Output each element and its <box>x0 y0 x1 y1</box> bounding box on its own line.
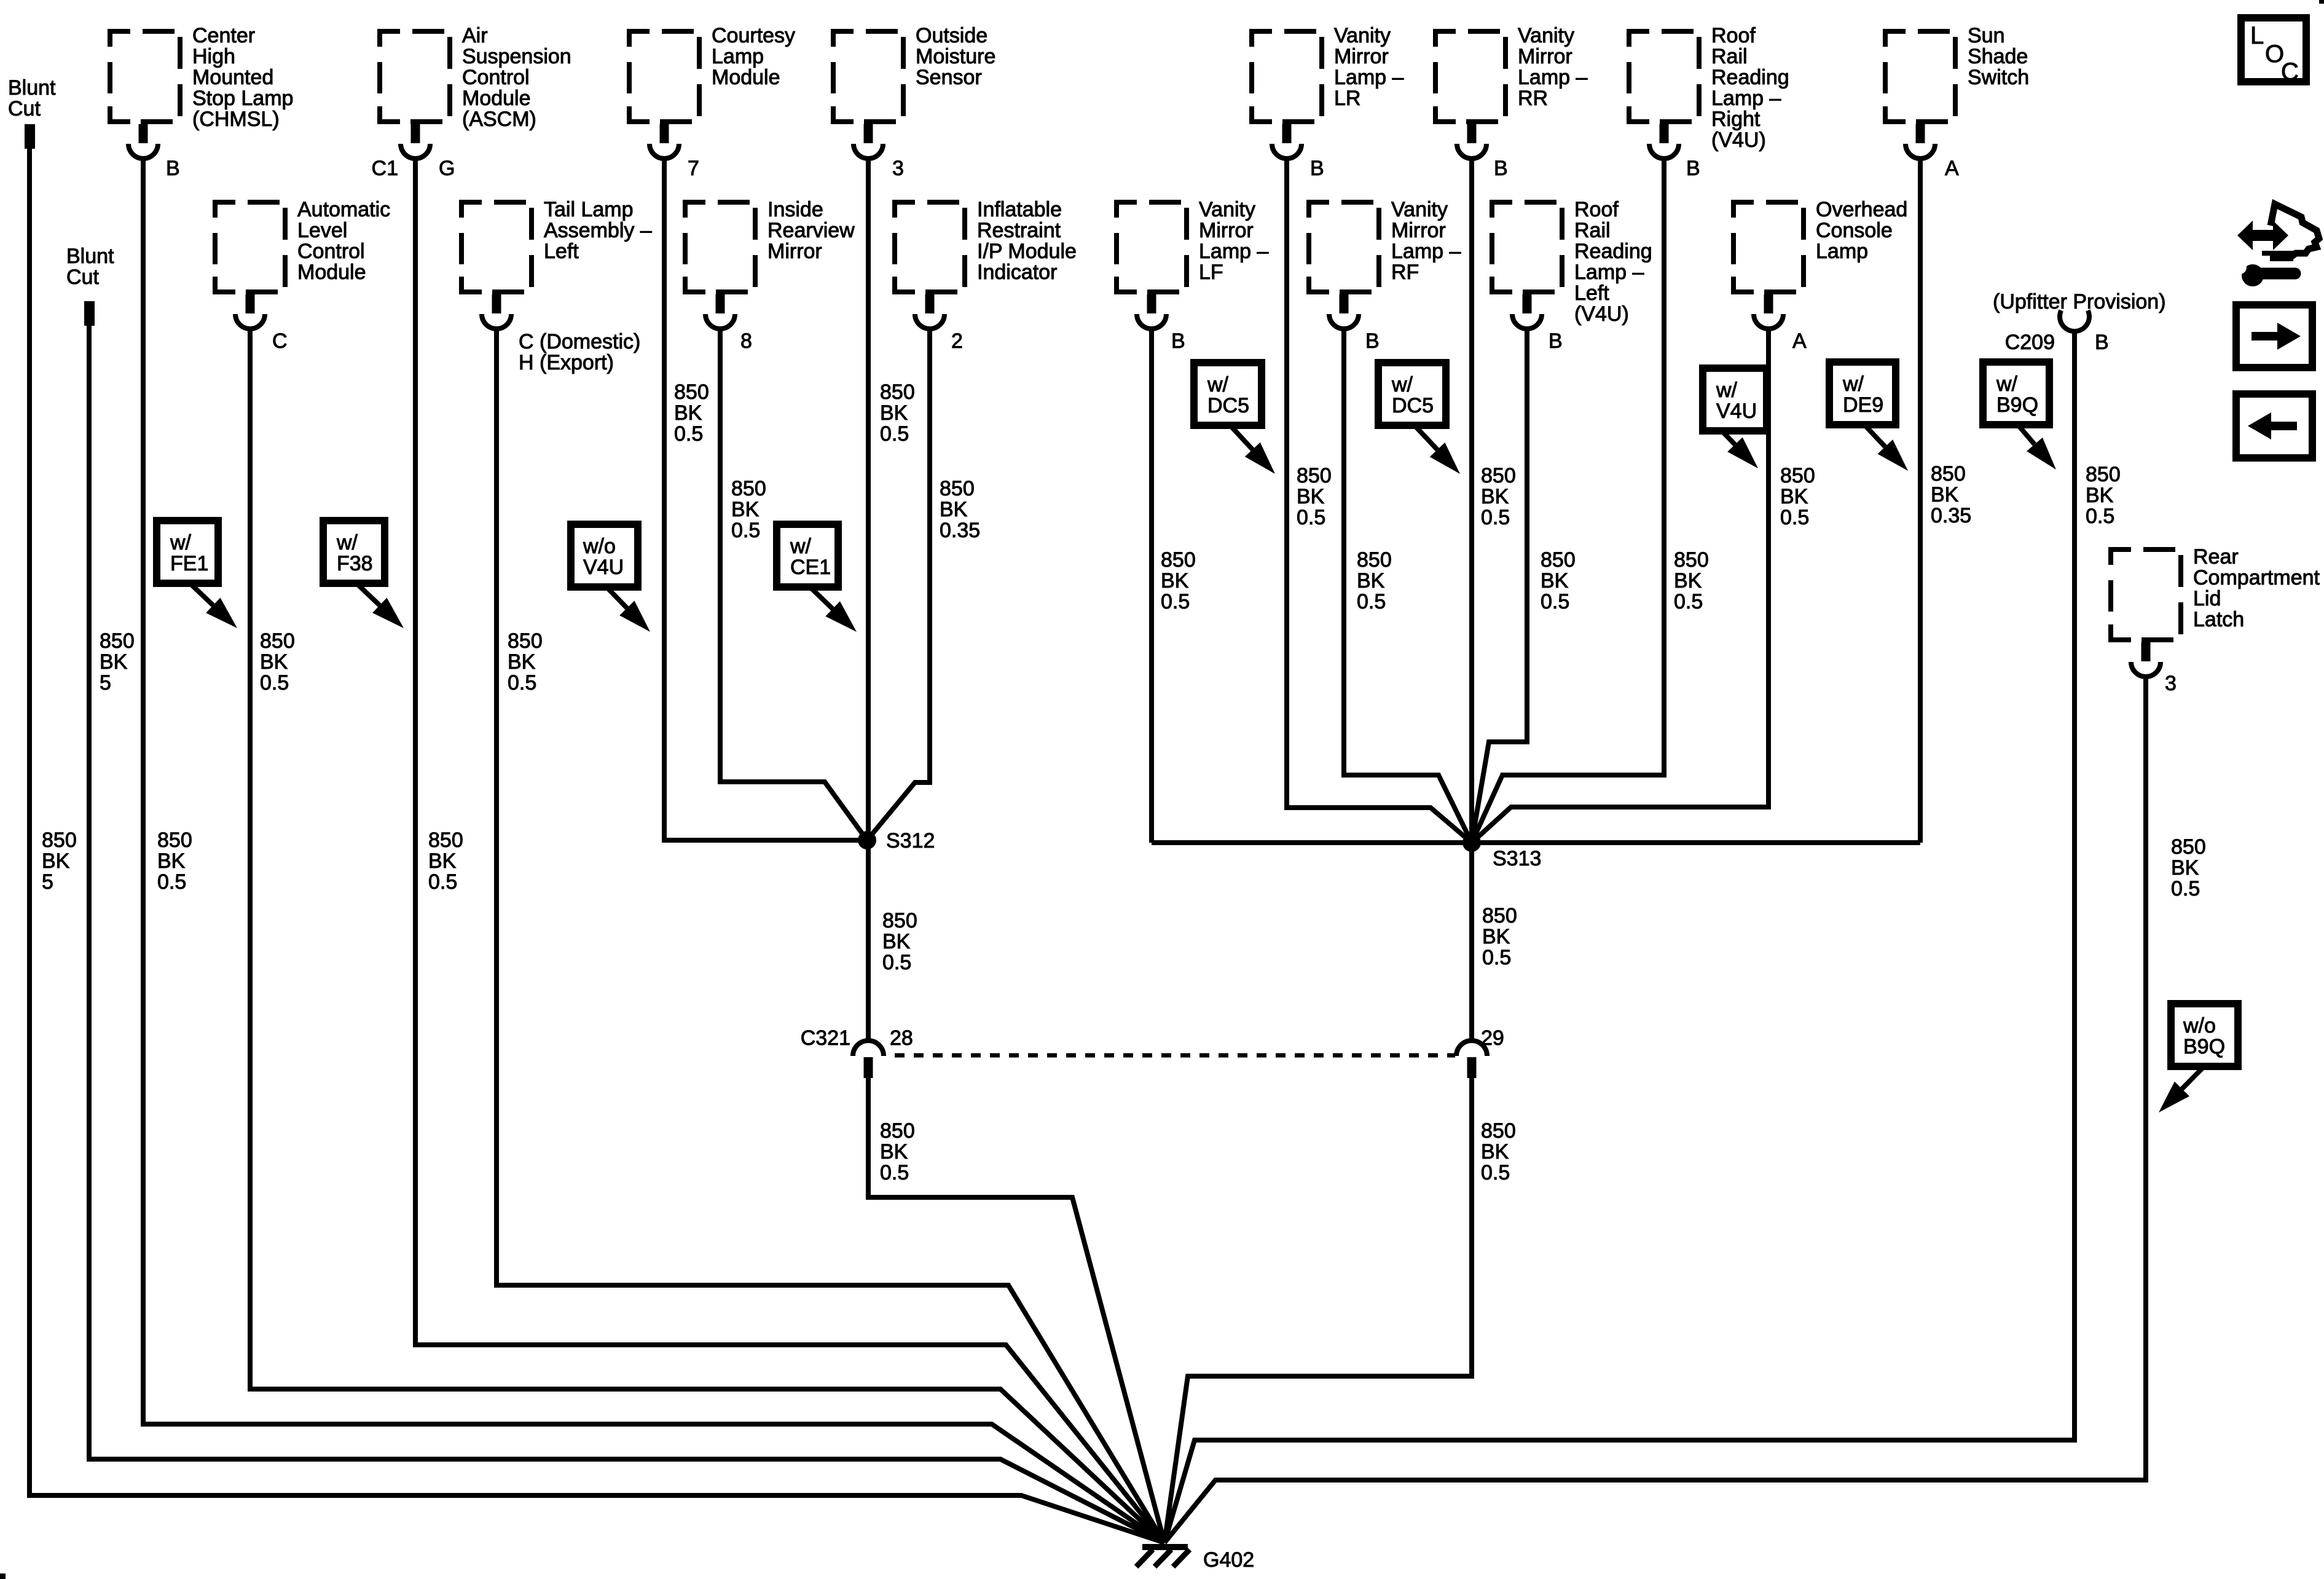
option arrow CE1 to Outside Moisture wire <box>809 586 833 609</box>
wire CHMSL B to G402 <box>143 158 1164 1543</box>
svg-text:2: 2 <box>951 329 963 353</box>
svg-text:850BK0.35: 850BK0.35 <box>940 477 980 542</box>
svg-text:B: B <box>1494 157 1508 180</box>
svg-text:850BK0.5: 850BK0.5 <box>2086 463 2121 528</box>
Courtesy Lamp Module connector <box>629 24 795 159</box>
wire Outside Moisture Sensor 3 through S312 to C321 pin 28 <box>866 158 871 1041</box>
service wrench icon <box>2233 204 2319 286</box>
svg-text:w/DE9: w/DE9 <box>1842 372 1883 417</box>
option box w/V4U <box>1703 368 1767 431</box>
svg-text:C: C <box>272 329 288 353</box>
ASCM connector <box>380 24 571 159</box>
Vanity Mirror Lamp RR connector <box>1435 24 1587 159</box>
wire C209 B to G402 <box>1164 330 2075 1543</box>
option arrow V4U to Overhead Console wire <box>1721 430 1735 444</box>
svg-text:RoofRailReadingLamp –Right(V4U: RoofRailReadingLamp –Right(V4U) <box>1711 24 1789 152</box>
svg-text:B: B <box>1549 329 1563 353</box>
Rear Compartment Lid Latch connector <box>2111 545 2320 677</box>
svg-text:B: B <box>166 157 180 180</box>
option arrow DE9 to Sun Shade wire <box>1863 423 1885 447</box>
Roof Rail Reading Lamp Left connector <box>1492 198 1652 329</box>
svg-text:850BK0.5: 850BK0.5 <box>1674 548 1709 613</box>
svg-text:850BK0.5: 850BK0.5 <box>508 629 543 695</box>
svg-text:Tail LampAssembly –Left: Tail LampAssembly –Left <box>544 198 652 263</box>
svg-text:AutomaticLevelControlModule: AutomaticLevelControlModule <box>297 198 390 284</box>
svg-text:850BK0.5: 850BK0.5 <box>880 1119 915 1184</box>
LOC legend box <box>2241 18 2306 85</box>
Vanity Mirror Lamp RF connector <box>1309 198 1461 329</box>
svg-text:w/oV4U: w/oV4U <box>583 535 624 579</box>
svg-text:G: G <box>439 157 455 180</box>
svg-text:C321: C321 <box>801 1026 850 1050</box>
Inflatable Restraint IP Module Indicator connector <box>895 198 1077 329</box>
svg-text:850BK0.5: 850BK0.5 <box>260 629 295 695</box>
option arrow F38 to ASCM wire <box>355 582 380 605</box>
svg-text:3: 3 <box>892 157 904 180</box>
wire Inside Rearview Mirror 8 to S312 <box>720 328 867 840</box>
svg-text:A: A <box>1945 157 1959 180</box>
option arrow w/o B9Q to Rear Latch wire <box>2182 1066 2205 1089</box>
Overhead Console Lamp connector <box>1733 198 1907 329</box>
wire ASCM G to G402 <box>415 158 1164 1543</box>
svg-text:B: B <box>2095 331 2109 354</box>
svg-text:VanityMirrorLamp –RF: VanityMirrorLamp –RF <box>1391 198 1461 284</box>
svg-text:850BK0.5: 850BK0.5 <box>157 829 192 894</box>
svg-text:S313: S313 <box>1493 847 1541 870</box>
wire C321 pin 29 to G402 <box>1164 1078 1472 1543</box>
C209 Upfitter Provision connector <box>1993 290 2166 354</box>
svg-text:VanityMirrorLamp –RR: VanityMirrorLamp –RR <box>1518 24 1587 110</box>
svg-text:OverheadConsoleLamp: OverheadConsoleLamp <box>1816 198 1907 263</box>
wire Vanity LR B to S313 <box>1287 158 1472 843</box>
Tail Lamp Assembly Left connector <box>461 198 652 329</box>
svg-text:850BK5: 850BK5 <box>100 629 135 695</box>
svg-text:B: B <box>1171 329 1185 353</box>
wire blunt cut 2 to G402 <box>89 326 1164 1543</box>
svg-text:850BK0.5: 850BK0.5 <box>1161 548 1196 613</box>
wire ALC C to G402 <box>250 328 1164 1543</box>
svg-text:8: 8 <box>740 329 752 353</box>
svg-text:w/DC5: w/DC5 <box>1207 373 1249 417</box>
svg-text:BluntCut: BluntCut <box>66 245 114 289</box>
svg-text:C (Domestic)H (Export): C (Domestic)H (Export) <box>519 330 640 374</box>
wire C321 pin 28 to G402 <box>868 1078 1164 1543</box>
svg-text:B: B <box>1686 157 1700 180</box>
svg-text:S312: S312 <box>886 829 935 853</box>
svg-text:w/DC5: w/DC5 <box>1391 373 1434 417</box>
svg-text:w/V4U: w/V4U <box>1716 379 1757 423</box>
svg-text:InsideRearviewMirror: InsideRearviewMirror <box>767 198 855 263</box>
svg-text:BluntCut: BluntCut <box>8 76 56 120</box>
svg-text:850BK0.5: 850BK0.5 <box>674 380 709 446</box>
svg-text:w/FE1: w/FE1 <box>170 531 208 575</box>
svg-text:w/oB9Q: w/oB9Q <box>2183 1014 2225 1058</box>
legend right-arrow box <box>2236 305 2312 368</box>
page corner mark <box>0 1573 6 1579</box>
svg-text:OutsideMoistureSensor: OutsideMoistureSensor <box>916 24 995 89</box>
Vanity Mirror Lamp LF connector <box>1117 198 1268 329</box>
svg-text:850BK0.5: 850BK0.5 <box>880 380 915 446</box>
C321 harness dashed line <box>895 1053 1455 1058</box>
svg-text:w/B9Q: w/B9Q <box>1996 372 2038 417</box>
wire blunt cut 1 to G402 <box>29 149 1164 1543</box>
connector C321 pin 29 <box>1456 1041 1487 1056</box>
svg-text:L: L <box>2250 22 2264 49</box>
option box w/DC5 left <box>1194 363 1262 425</box>
option box w/B9Q <box>1983 362 2049 425</box>
option arrow w/o V4U to Courtesy wire <box>605 586 627 608</box>
wire Tail Lamp C to G402 <box>497 328 1164 1543</box>
wire Roof Rail Left B to S313 <box>1472 328 1527 843</box>
svg-text:850BK0.35: 850BK0.35 <box>1931 462 1971 527</box>
splice S312 <box>858 831 876 849</box>
option box w/o B9Q <box>2171 1004 2238 1066</box>
svg-text:C1: C1 <box>372 157 398 180</box>
wire Courtesy Lamp 7 to S312 <box>664 158 867 840</box>
legend left-arrow box <box>2236 394 2312 458</box>
svg-text:VanityMirrorLamp –LF: VanityMirrorLamp –LF <box>1199 198 1268 284</box>
svg-text:850BK0.5: 850BK0.5 <box>2171 835 2206 900</box>
svg-text:InflatableRestraintI/P ModuleI: InflatableRestraintI/P ModuleIndicator <box>977 198 1077 284</box>
Roof Rail Reading Lamp Right connector <box>1629 24 1789 159</box>
svg-text:B: B <box>1365 329 1380 353</box>
wire Vanity RR B through S313 to C321 pin 29 <box>1469 158 1474 1041</box>
Sun Shade Switch connector <box>1885 24 2029 159</box>
svg-text:B: B <box>1310 157 1324 180</box>
svg-text:RoofRailReadingLamp –Left(V4U): RoofRailReadingLamp –Left(V4U) <box>1574 198 1652 326</box>
option arrow DC5 to Vanity LR wire <box>1229 424 1252 449</box>
option box w/DC5 right <box>1378 363 1446 425</box>
svg-text:850BK0.5: 850BK0.5 <box>1780 464 1815 529</box>
wire Vanity RF B to S313 <box>1344 328 1472 843</box>
blunt cut terminal 2 <box>84 301 95 326</box>
svg-text:7: 7 <box>688 157 699 180</box>
wire Vanity LF B to S313 bus <box>1149 328 1154 843</box>
svg-text:28: 28 <box>890 1026 913 1050</box>
splice S313 <box>1462 833 1481 852</box>
blunt cut terminal 1 <box>25 124 35 149</box>
svg-text:C: C <box>2281 58 2299 85</box>
option arrow B9Q to C209 wire <box>2017 423 2035 444</box>
svg-text:850BK5: 850BK5 <box>42 829 77 894</box>
option arrow DC5 to Vanity RR wire <box>1413 424 1437 450</box>
svg-text:(Upfitter Provision): (Upfitter Provision) <box>1993 290 2166 313</box>
S313 bus horizontal wire <box>1152 840 1920 845</box>
wire Roof Rail Right B to S313 <box>1472 158 1664 843</box>
svg-text:CenterHighMountedStop Lamp(CHM: CenterHighMountedStop Lamp(CHMSL) <box>192 24 293 131</box>
wire Inflatable Restraint 2 to S312 <box>867 328 930 840</box>
svg-text:SunShadeSwitch: SunShadeSwitch <box>1968 24 2029 89</box>
option box w/o V4U <box>571 524 638 587</box>
option box w/DE9 <box>1829 362 1896 425</box>
Inside Rearview Mirror connector <box>685 198 855 329</box>
svg-text:C209: C209 <box>2005 331 2055 354</box>
Automatic Level Control Module connector <box>215 198 390 329</box>
svg-text:850BK0.5: 850BK0.5 <box>1297 464 1332 529</box>
svg-text:CourtesyLampModule: CourtesyLampModule <box>712 24 795 89</box>
connector C321 pin 28 <box>853 1041 884 1056</box>
svg-text:A: A <box>1792 329 1807 353</box>
svg-text:29: 29 <box>1481 1026 1504 1050</box>
svg-text:w/CE1: w/CE1 <box>790 535 831 579</box>
wire Overhead Console A to S313 <box>1472 328 1769 843</box>
svg-text:850BK0.5: 850BK0.5 <box>882 909 917 974</box>
svg-text:850BK0.5: 850BK0.5 <box>1481 464 1516 529</box>
option arrow FE1 to ALC wire <box>189 582 213 605</box>
svg-text:850BK0.5: 850BK0.5 <box>1357 548 1392 613</box>
svg-text:850BK0.5: 850BK0.5 <box>1482 904 1517 969</box>
svg-text:850BK0.5: 850BK0.5 <box>1481 1119 1516 1184</box>
option box w/F38 <box>323 521 385 583</box>
svg-text:w/F38: w/F38 <box>336 531 373 575</box>
svg-text:VanityMirrorLamp –LR: VanityMirrorLamp –LR <box>1334 24 1403 110</box>
svg-text:850BK0.5: 850BK0.5 <box>428 829 463 894</box>
svg-text:AirSuspensionControlModule(ASC: AirSuspensionControlModule(ASCM) <box>462 24 571 131</box>
svg-text:RearCompartmentLidLatch: RearCompartmentLidLatch <box>2193 545 2320 631</box>
option box w/FE1 <box>157 521 218 583</box>
Outside Moisture Sensor connector <box>833 24 995 159</box>
CHMSL connector <box>110 24 293 159</box>
option box w/CE1 <box>777 524 838 587</box>
svg-text:3: 3 <box>2165 672 2177 695</box>
svg-text:850BK0.5: 850BK0.5 <box>731 477 766 542</box>
wire Rear Compartment Lid Latch 3 to G402 <box>1164 676 2146 1543</box>
svg-text:850BK0.5: 850BK0.5 <box>1541 548 1576 613</box>
wire Sun Shade Switch A to S313 bus <box>1918 158 1923 843</box>
svg-text:G402: G402 <box>1203 1548 1254 1572</box>
ground G402 <box>1136 1547 1190 1567</box>
Vanity Mirror Lamp LR connector <box>1252 24 1403 159</box>
